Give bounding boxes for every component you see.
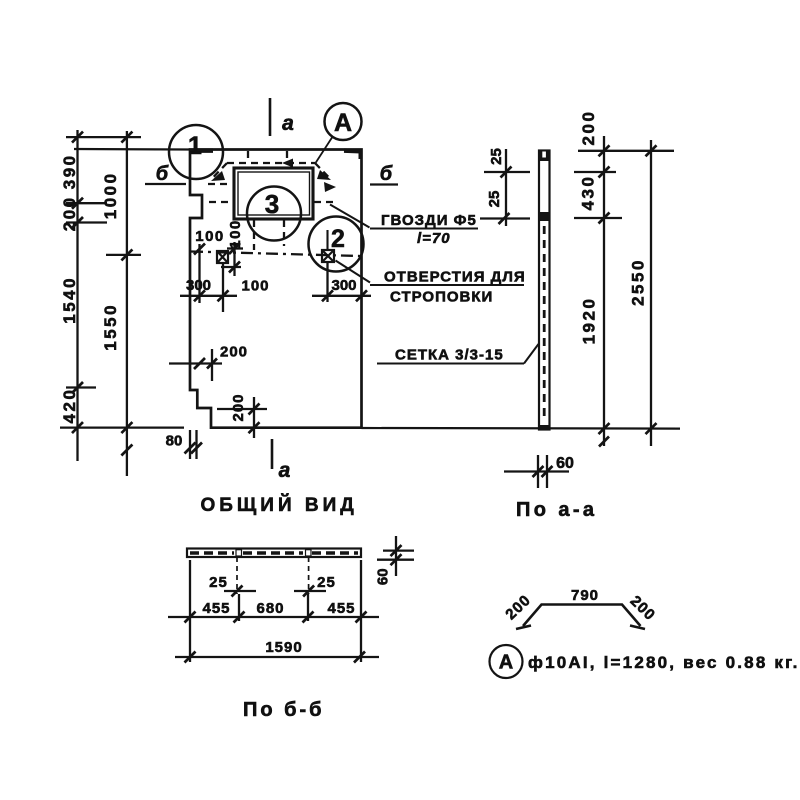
svg-text:a: a [282, 112, 294, 135]
svg-text:СТРОПОВКИ: СТРОПОВКИ [390, 289, 493, 306]
svg-text:25: 25 [486, 191, 503, 208]
svg-text:680: 680 [256, 600, 284, 617]
svg-text:25: 25 [317, 574, 336, 591]
svg-text:ОБЩИЙ ВИД: ОБЩИЙ ВИД [201, 494, 358, 516]
svg-text:3: 3 [265, 189, 279, 219]
svg-text:25: 25 [209, 574, 228, 591]
svg-text:100: 100 [241, 278, 269, 295]
svg-text:1000: 1000 [101, 171, 120, 219]
svg-text:б: б [156, 163, 169, 185]
svg-text:1590: 1590 [265, 639, 302, 656]
svg-text:200: 200 [60, 195, 79, 231]
svg-text:2: 2 [331, 225, 345, 253]
svg-text:80: 80 [166, 433, 183, 450]
svg-text:ГВОЗДИ Ф5: ГВОЗДИ Ф5 [381, 212, 477, 229]
svg-text:A: A [334, 109, 352, 137]
svg-text:60: 60 [556, 455, 574, 472]
svg-text:790: 790 [571, 587, 599, 604]
svg-text:200: 200 [230, 393, 247, 421]
svg-text:1540: 1540 [60, 276, 79, 324]
svg-text:A: A [499, 652, 513, 674]
svg-text:2550: 2550 [629, 258, 648, 306]
svg-text:l=70: l=70 [417, 230, 451, 247]
svg-text:1: 1 [188, 132, 202, 160]
svg-text:СЕТКА 3/3-15: СЕТКА 3/3-15 [395, 347, 504, 364]
svg-text:430: 430 [579, 175, 598, 211]
svg-text:455: 455 [327, 600, 355, 617]
svg-text:б: б [380, 163, 393, 185]
svg-text:1920: 1920 [580, 297, 599, 345]
svg-text:420: 420 [60, 388, 79, 424]
svg-text:ОТВЕРСТИЯ ДЛЯ: ОТВЕРСТИЯ ДЛЯ [384, 269, 526, 286]
svg-text:60: 60 [375, 568, 392, 585]
svg-text:25: 25 [488, 148, 505, 165]
svg-text:ф10АI, l=1280, вес 0.88 кг.: ф10АI, l=1280, вес 0.88 кг. [528, 653, 800, 672]
svg-text:300: 300 [186, 277, 211, 294]
svg-text:a: a [279, 459, 291, 482]
svg-text:100: 100 [227, 219, 244, 249]
svg-text:100: 100 [195, 228, 225, 245]
svg-text:1550: 1550 [101, 303, 120, 351]
svg-text:455: 455 [202, 600, 230, 617]
svg-text:200: 200 [220, 344, 248, 361]
svg-text:390: 390 [60, 153, 79, 189]
svg-text:300: 300 [331, 277, 356, 294]
svg-text:По а-а: По а-а [516, 499, 597, 521]
svg-text:200: 200 [579, 110, 598, 146]
svg-text:По б-б: По б-б [243, 699, 325, 721]
